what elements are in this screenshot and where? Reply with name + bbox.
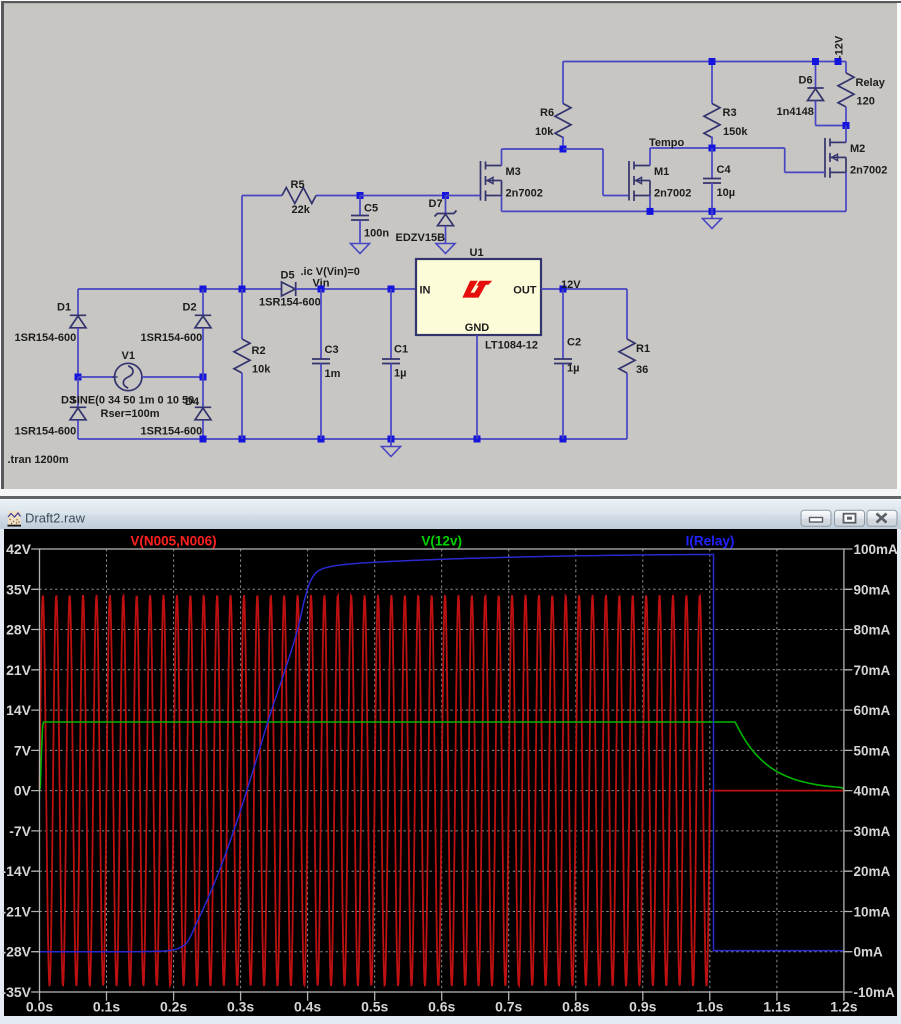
svg-text:1.0s: 1.0s bbox=[696, 999, 723, 1015]
voltage source V1 bbox=[112, 363, 142, 390]
close button bbox=[867, 510, 897, 526]
wire M1 gate bbox=[603, 195, 629, 197]
svg-text:150k: 150k bbox=[723, 126, 748, 138]
svg-text:1n4148: 1n4148 bbox=[777, 106, 814, 118]
svg-text:Relay: Relay bbox=[856, 77, 886, 89]
svg-text:-28V: -28V bbox=[1, 944, 31, 960]
svg-text:1SR154-600: 1SR154-600 bbox=[141, 426, 203, 438]
wire D4 bottom bbox=[202, 420, 204, 439]
ground D7 bbox=[436, 244, 455, 254]
node Vin bbox=[318, 286, 325, 293]
wire M2 gate vertical bbox=[784, 148, 786, 172]
svg-text:7V: 7V bbox=[14, 742, 32, 758]
plot pane background bbox=[0, 529, 901, 1024]
wire R1 top bbox=[626, 289, 628, 339]
trace I(Relay) blue bbox=[40, 555, 844, 952]
svg-text:U1: U1 bbox=[470, 247, 484, 259]
svg-text:0.6s: 0.6s bbox=[428, 999, 455, 1015]
wire OUT rail bbox=[541, 288, 627, 290]
wire M3 drain bbox=[501, 149, 503, 166]
resistor R3 bbox=[704, 104, 720, 138]
svg-text:C4: C4 bbox=[717, 164, 732, 176]
svg-text:M1: M1 bbox=[654, 166, 669, 178]
svg-text:0.9s: 0.9s bbox=[629, 999, 656, 1015]
wire V1 right bbox=[142, 376, 203, 378]
svg-text:70mA: 70mA bbox=[854, 663, 891, 678]
restore button bbox=[835, 510, 865, 526]
svg-text:1m: 1m bbox=[325, 368, 341, 380]
wire D1 to V1 bbox=[77, 328, 79, 377]
svg-text:1SR154-600: 1SR154-600 bbox=[15, 426, 77, 438]
transistor M1 bbox=[629, 161, 650, 201]
svg-text:.tran 1200m: .tran 1200m bbox=[8, 454, 69, 466]
wire D7 bottom bbox=[445, 226, 447, 244]
svg-text:R3: R3 bbox=[723, 107, 737, 119]
svg-text:0.2s: 0.2s bbox=[160, 999, 187, 1015]
wire ground stub bbox=[390, 439, 392, 447]
ground main bbox=[382, 447, 401, 457]
svg-text:Tempo: Tempo bbox=[649, 137, 685, 149]
svg-text:-10mA: -10mA bbox=[854, 985, 896, 1000]
svg-text:D6: D6 bbox=[799, 75, 813, 87]
svg-text:21V: 21V bbox=[6, 662, 32, 678]
diode D1 bbox=[70, 315, 86, 328]
svg-text:R1: R1 bbox=[636, 343, 650, 355]
wire to M1 gate vertical bbox=[602, 149, 604, 196]
wire D3 bottom bbox=[77, 420, 79, 439]
svg-text:90mA: 90mA bbox=[854, 582, 891, 597]
regulator U1 LT1084-12 bbox=[416, 259, 541, 335]
svg-text:LT1084-12: LT1084-12 bbox=[485, 340, 538, 352]
wire M2 source bbox=[845, 172, 847, 211]
wire M3 gate bbox=[446, 195, 481, 197]
node R2 bottom bbox=[239, 436, 246, 443]
wire M2 drain bbox=[845, 126, 847, 143]
node D7 top bbox=[442, 192, 449, 199]
axis ticks bbox=[31, 549, 852, 1001]
resistor R6 bbox=[555, 104, 571, 138]
svg-text:35V: 35V bbox=[6, 581, 32, 597]
svg-text:14V: 14V bbox=[6, 702, 32, 718]
wire R1 bottom bbox=[626, 373, 628, 439]
resistor Relay bbox=[838, 73, 854, 107]
wire D3 top bbox=[77, 377, 79, 407]
diode D6 bbox=[807, 88, 823, 101]
wire R2 bottom bbox=[241, 373, 243, 439]
wire R5 left bbox=[242, 195, 282, 197]
svg-text:0V: 0V bbox=[14, 783, 32, 799]
legend bbox=[130, 534, 734, 549]
svg-text:C1: C1 bbox=[394, 344, 408, 356]
wire D5 to U1 IN bbox=[296, 288, 416, 290]
capacitor C2 bbox=[554, 359, 572, 364]
svg-text:C3: C3 bbox=[325, 344, 339, 356]
wire D4 top bbox=[202, 377, 204, 407]
wire Tempo to M2 bbox=[712, 147, 785, 149]
node V1 minus bbox=[200, 374, 207, 381]
svg-text:-12V: -12V bbox=[834, 35, 846, 59]
svg-text:Draft2.raw: Draft2.raw bbox=[25, 511, 86, 526]
node V1 plus bbox=[75, 374, 82, 381]
node C5 top bbox=[357, 192, 364, 199]
capacitor C1 bbox=[382, 359, 400, 364]
zener diode D7 bbox=[435, 211, 457, 226]
svg-text:D2: D2 bbox=[183, 302, 197, 314]
axis labels bbox=[1, 541, 898, 1015]
wire D1 top bbox=[77, 289, 79, 315]
LT logo bbox=[462, 281, 492, 298]
diode D4 bbox=[195, 407, 211, 420]
svg-text:80mA: 80mA bbox=[854, 623, 891, 638]
svg-text:10k: 10k bbox=[535, 126, 554, 138]
wire C5 lead bbox=[359, 196, 361, 216]
node C1 top bbox=[388, 286, 395, 293]
node -12V label anchor bbox=[835, 58, 842, 65]
wire R3 bottom bbox=[711, 137, 713, 149]
svg-text:EDZV15B: EDZV15B bbox=[396, 232, 446, 244]
wire Relay top bbox=[845, 62, 847, 73]
wire D6 bottom bbox=[815, 101, 817, 126]
wire V1 left bbox=[78, 376, 115, 378]
svg-text:D7: D7 bbox=[429, 198, 443, 210]
svg-text:V(N005,N006): V(N005,N006) bbox=[130, 534, 216, 549]
svg-text:10k: 10k bbox=[252, 364, 271, 376]
svg-text:C2: C2 bbox=[567, 337, 581, 349]
diode D3 bbox=[70, 407, 86, 420]
wire mosfet source rail bbox=[502, 210, 847, 212]
node relay coil bottom bbox=[843, 122, 850, 129]
wire M1 drain bbox=[649, 148, 651, 166]
capacitor C4 bbox=[703, 179, 721, 184]
wire R6 top bbox=[562, 62, 564, 104]
window icon bbox=[8, 511, 22, 527]
wire D2 top lead bbox=[202, 289, 204, 315]
wire R2 top lead bbox=[241, 289, 243, 339]
svg-text:0.8s: 0.8s bbox=[562, 999, 589, 1015]
diode D2 bbox=[195, 315, 211, 328]
wire R5 to C5 bbox=[316, 195, 360, 197]
node R3 top bbox=[709, 58, 716, 65]
svg-text:0.5s: 0.5s bbox=[361, 999, 388, 1015]
node M3 drain R6 bbox=[560, 146, 567, 153]
wire M3 drain to R6 bbox=[502, 148, 564, 150]
wire D6 to node bbox=[816, 125, 847, 127]
svg-text:GND: GND bbox=[465, 322, 490, 334]
wire Relay bottom bbox=[845, 107, 847, 126]
resistor R2 bbox=[234, 339, 250, 373]
wire C4 bottom bbox=[711, 183, 713, 211]
svg-text:120: 120 bbox=[857, 96, 875, 108]
svg-text:100mA: 100mA bbox=[854, 542, 899, 557]
wire M2 gate bbox=[785, 171, 825, 173]
svg-text:IN: IN bbox=[420, 285, 431, 297]
wire C3 bottom bbox=[320, 364, 322, 440]
node C3 bottom bbox=[318, 436, 325, 443]
svg-text:R5: R5 bbox=[291, 179, 305, 191]
node M1 source bbox=[647, 208, 654, 215]
svg-text:2n7002: 2n7002 bbox=[850, 164, 887, 176]
svg-text:40mA: 40mA bbox=[854, 784, 891, 799]
transistor M3 bbox=[481, 161, 502, 201]
wire C4 ground stub bbox=[711, 211, 713, 218]
svg-text:28V: 28V bbox=[6, 622, 32, 638]
wire C2 bottom bbox=[562, 364, 564, 440]
capacitor C3 bbox=[312, 359, 330, 364]
svg-text:.ic V(Vin)=0: .ic V(Vin)=0 bbox=[301, 266, 360, 278]
wire M3 source bbox=[501, 196, 503, 212]
svg-text:M3: M3 bbox=[506, 166, 521, 178]
wire C5 to D7 bbox=[360, 195, 446, 197]
svg-text:50mA: 50mA bbox=[854, 743, 891, 758]
svg-text:1.1s: 1.1s bbox=[763, 999, 790, 1015]
svg-text:V(12v): V(12v) bbox=[421, 534, 462, 549]
capacitor C5 bbox=[351, 216, 369, 221]
resistor R5 bbox=[282, 188, 316, 204]
svg-text:OUT: OUT bbox=[513, 285, 537, 297]
svg-text:0.1s: 0.1s bbox=[93, 999, 120, 1015]
svg-text:D1: D1 bbox=[57, 302, 71, 314]
svg-text:0.4s: 0.4s bbox=[294, 999, 321, 1015]
wire C2 top bbox=[562, 289, 564, 359]
wire top rail bbox=[563, 61, 846, 63]
svg-text:D4: D4 bbox=[185, 396, 200, 408]
svg-text:D5: D5 bbox=[281, 270, 295, 282]
svg-text:30mA: 30mA bbox=[854, 824, 891, 839]
wire M1 source bbox=[649, 196, 651, 212]
wire R3 top bbox=[711, 62, 713, 104]
svg-text:1µ: 1µ bbox=[567, 363, 579, 375]
wire D7 lead bbox=[445, 196, 447, 214]
svg-text:12V: 12V bbox=[561, 279, 581, 291]
svg-text:-7V: -7V bbox=[9, 823, 31, 839]
svg-text:10µ: 10µ bbox=[717, 187, 736, 199]
node D4 bottom bbox=[200, 436, 207, 443]
wire bottom rail bbox=[78, 438, 627, 440]
svg-text:1.2s: 1.2s bbox=[830, 999, 857, 1015]
transistor M2 bbox=[825, 138, 846, 178]
wire C5 bottom bbox=[359, 220, 361, 244]
svg-text:2n7002: 2n7002 bbox=[506, 188, 543, 200]
wire R5 branch down bbox=[241, 196, 243, 290]
node C4 bottom bbox=[709, 208, 716, 215]
node D6 top bbox=[812, 58, 819, 65]
wire U1 GND pin bbox=[476, 335, 478, 439]
svg-text:I(Relay): I(Relay) bbox=[686, 534, 735, 549]
svg-text:-14V: -14V bbox=[1, 863, 31, 879]
wire R6 bottom bbox=[562, 137, 564, 150]
svg-text:22k: 22k bbox=[292, 204, 311, 216]
wire D6 top bbox=[815, 62, 817, 89]
wire C1 top bbox=[390, 289, 392, 359]
svg-text:36: 36 bbox=[636, 364, 648, 376]
node U1 GND bbox=[474, 436, 481, 443]
node R2 top bbox=[239, 286, 246, 293]
svg-text:0.3s: 0.3s bbox=[227, 999, 254, 1015]
svg-text:1SR154-600: 1SR154-600 bbox=[15, 332, 77, 344]
svg-text:60mA: 60mA bbox=[854, 703, 891, 718]
diode D5 bbox=[282, 282, 296, 296]
svg-text:R2: R2 bbox=[252, 345, 266, 357]
svg-text:0.0s: 0.0s bbox=[26, 999, 53, 1015]
svg-text:M2: M2 bbox=[850, 143, 865, 155]
svg-text:10mA: 10mA bbox=[854, 905, 891, 920]
svg-text:1µ: 1µ bbox=[394, 368, 406, 380]
wire C1 bottom bbox=[390, 364, 392, 440]
svg-text:0.7s: 0.7s bbox=[495, 999, 522, 1015]
svg-text:SINE(0 34 50 1m 0 10 50: SINE(0 34 50 1m 0 10 50 bbox=[70, 395, 195, 407]
wire C4 top bbox=[711, 148, 713, 179]
node C1 bottom bbox=[388, 436, 395, 443]
minimize button bbox=[801, 510, 831, 526]
wire C3 top bbox=[320, 289, 322, 359]
wire input rail left bbox=[78, 288, 282, 290]
svg-text:-21V: -21V bbox=[1, 904, 31, 920]
svg-text:2n7002: 2n7002 bbox=[654, 188, 691, 200]
node 12V bbox=[560, 286, 567, 293]
ground C4 bbox=[703, 219, 722, 229]
svg-text:100n: 100n bbox=[364, 228, 389, 240]
trace V(N005,N006) red bbox=[40, 595, 844, 986]
resistor R1 bbox=[619, 339, 635, 373]
wire D2 to V1 bbox=[202, 328, 204, 377]
node Tempo bbox=[709, 145, 716, 152]
trace V(12v) green bbox=[40, 722, 844, 791]
node C2 bottom bbox=[560, 436, 567, 443]
svg-text:R6: R6 bbox=[540, 107, 554, 119]
svg-text:42V: 42V bbox=[6, 541, 32, 557]
svg-text:C5: C5 bbox=[364, 203, 378, 215]
wire Tempo bbox=[650, 147, 712, 149]
plot frame bbox=[40, 549, 844, 992]
ground C5 bbox=[351, 244, 370, 254]
svg-text:0mA: 0mA bbox=[854, 945, 884, 960]
svg-text:Rser=100m: Rser=100m bbox=[101, 408, 160, 420]
svg-text:20mA: 20mA bbox=[854, 864, 891, 879]
wire R6 node right bbox=[563, 148, 603, 150]
svg-text:1SR154-600: 1SR154-600 bbox=[259, 297, 321, 309]
node D2 top bbox=[200, 286, 207, 293]
svg-text:1SR154-600: 1SR154-600 bbox=[141, 332, 203, 344]
svg-text:V1: V1 bbox=[122, 350, 135, 362]
